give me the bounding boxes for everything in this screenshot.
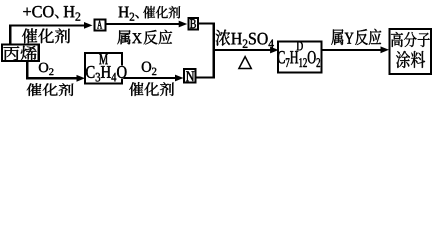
wire propylene-up vertical	[9, 25, 11, 44]
text O2 over M-N arrow	[142, 62, 157, 75]
box M	[85, 53, 122, 84]
text catalyst under first arrow	[22, 28, 70, 43]
wire D to end line	[322, 49, 381, 51]
formula C7H12O2 in box D	[278, 51, 320, 67]
wire merge vertical	[212, 23, 215, 79]
box propylene	[2, 45, 39, 62]
wire N right exit	[196, 77, 214, 79]
text belongs-Y-reaction over last arrow	[331, 29, 381, 45]
label A	[97, 21, 102, 29]
white fill behind O of C3H4O over box M border	[116, 65, 126, 78]
text O2 over lower-left arrow	[39, 63, 54, 75]
arrowhead into end box	[381, 46, 390, 53]
wire lower-left arrow line	[26, 77, 77, 79]
wire A to B line	[106, 23, 180, 25]
arrowhead into N	[175, 75, 184, 82]
arrowhead into B	[179, 21, 188, 28]
wire first arrow line	[9, 25, 85, 27]
text coating line2 in end box	[396, 51, 425, 68]
text propylene in start box	[3, 46, 36, 61]
arrowhead into D	[270, 47, 279, 54]
box N	[184, 69, 195, 83]
box D	[278, 41, 322, 72]
arrowhead into M	[77, 75, 86, 82]
wire B right exit	[199, 22, 216, 24]
text H2,catalyst over A-B arrow	[119, 6, 181, 21]
box A	[94, 19, 105, 30]
label N	[186, 71, 194, 81]
formula C3H4O in box M	[86, 66, 127, 82]
symbol delta under middle arrow	[239, 57, 251, 69]
label D in box D	[297, 42, 303, 51]
arrowhead into A	[84, 22, 93, 29]
text conc-H2SO4 over middle arrow	[216, 30, 274, 48]
label B	[190, 19, 196, 28]
label M in box M	[99, 54, 108, 64]
text +CO,H2 over first arrow	[23, 6, 80, 21]
wire M to N line	[123, 77, 176, 79]
text belongs-X-reaction under A-B arrow	[117, 30, 172, 45]
wire propylene-down vertical	[26, 60, 29, 79]
wire middle arrow line	[213, 49, 271, 51]
wire M to N line restored over O	[124, 77, 140, 79]
box end polymer-coating	[390, 29, 432, 74]
text catalyst under lower-left arrow	[27, 83, 74, 96]
box B	[189, 18, 198, 30]
text catalyst under M-N arrow	[129, 82, 174, 96]
text polymer line1 in end box	[391, 32, 430, 47]
